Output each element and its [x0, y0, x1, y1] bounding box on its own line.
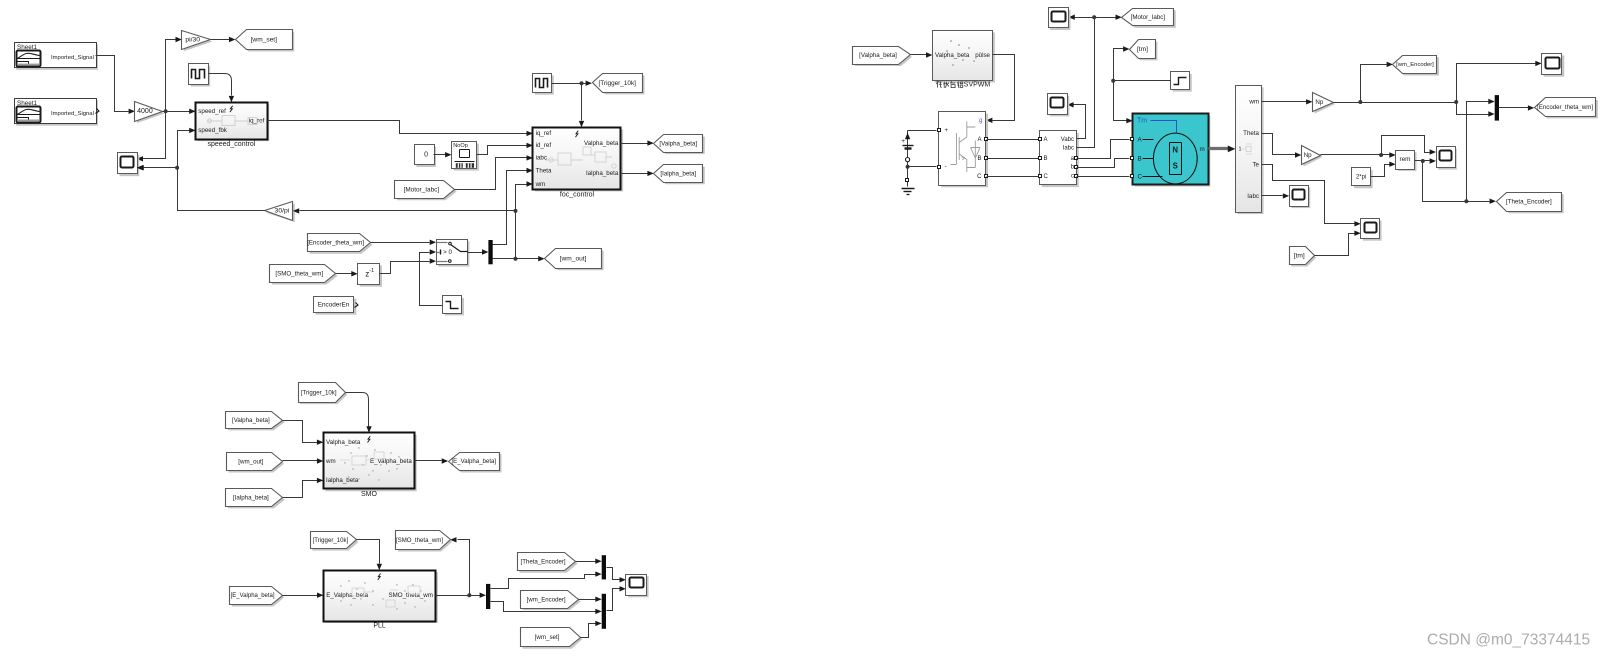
- svg-text:[wm_set]: [wm_set]: [251, 37, 278, 44]
- svg-text:Ialpha_beta: Ialpha_beta: [586, 170, 619, 177]
- From tag [Valpha_beta] (SMO): [228, 414, 285, 431]
- svg-text:CSDN @m0_73374415: CSDN @m0_73374415: [1427, 632, 1590, 649]
- scope Vabc (mirrored): [1050, 96, 1070, 117]
- svg-text:[SMO_theta_wm]: [SMO_theta_wm]: [396, 537, 443, 544]
- wire: speeed_control iq_ref to foc_control iq_ref: [268, 121, 527, 134]
- mux theta compare: [602, 555, 606, 579]
- wire: c to PMSM C: [1077, 176, 1130, 178]
- wire: inverter B to measurement B: [987, 158, 1039, 160]
- junction at DC source negative: [906, 165, 910, 169]
- svg-text:Theta: Theta: [1243, 130, 1259, 137]
- From tag [SMO_theta_wm]: [272, 267, 338, 285]
- scope compare (bottom): [628, 576, 649, 597]
- wire: bus Theta to gain Np2: [1262, 134, 1296, 155]
- svg-text:[Valpha_beta]: [Valpha_beta]: [232, 417, 270, 424]
- wire: Vabc to scope: [1074, 105, 1086, 139]
- junction wm tap to 30/pi: [514, 209, 518, 213]
- wire: wm_out to SMO wm: [283, 460, 318, 462]
- wire: junction over rem to scope input 1: [1382, 136, 1425, 155]
- pulse generator (speed profile trigger): [191, 66, 211, 87]
- From tag [Trigger_10k] (PLL): [312, 533, 358, 551]
- svg-text:4000: 4000: [137, 108, 153, 115]
- Goto tag [Valpha_beta]: [656, 137, 705, 155]
- universal bridge inverter (IGBT): [941, 114, 988, 188]
- wire: Iabc up to scope and Goto Motor_Iabc: [1075, 18, 1095, 148]
- svg-text:[Ialpha_beta]: [Ialpha_beta]: [233, 495, 269, 502]
- svg-text:[Encoder_theta_wm]: [Encoder_theta_wm]: [307, 240, 364, 247]
- svg-text:wm: wm: [535, 181, 546, 188]
- wire: gain 4000 output to speed_ref with junction: [163, 111, 190, 113]
- svg-text:[wm_Encoder]: [wm_Encoder]: [527, 596, 566, 603]
- wire: b to PMSM B: [1077, 159, 1130, 168]
- wire: feedback junction to scope lower input: [144, 167, 178, 169]
- wire: DC- to inverter -: [908, 166, 937, 168]
- wire: demux wm to mux bottom input 2: [491, 602, 596, 612]
- svg-text:Valpha_beta: Valpha_beta: [326, 439, 361, 446]
- svg-text:[tm]: [tm]: [1137, 46, 1148, 53]
- svg-text:E_Valpha_beta: E_Valpha_beta: [326, 592, 368, 599]
- DC voltage source with battery symbol: [907, 131, 909, 187]
- junction on torque wire: [1111, 79, 1115, 83]
- svg-text:NoOp: NoOp: [453, 143, 468, 149]
- junction theta to scope: [1379, 153, 1383, 157]
- wire: From tm to scope Te input 2: [1315, 234, 1355, 256]
- wire: mux wm to scope input 2: [607, 589, 620, 611]
- svg-text:[SMO_theta_wm]: [SMO_theta_wm]: [275, 271, 323, 278]
- wire: junction down to PMSM Tm: [1114, 81, 1127, 121]
- svg-text:iq_ref: iq_ref: [536, 130, 552, 137]
- junction on wm wire: [514, 257, 518, 261]
- svg-text:C: C: [1044, 174, 1049, 180]
- wire: rem output to scope and Theta_Encoder: [1415, 160, 1430, 162]
- svg-text:[Motor_Iabc]: [Motor_Iabc]: [1131, 14, 1166, 21]
- svg-text:[wm_out]: [wm_out]: [560, 255, 587, 262]
- label 优化后的SVPWM (CJK simulated): [936, 81, 942, 87]
- junction on PLL output: [467, 593, 471, 597]
- svg-text:Valpha_beta: Valpha_beta: [584, 140, 619, 147]
- wire: a to PMSM A: [1077, 140, 1130, 159]
- wire: wm_set to mux bottom input 3: [581, 624, 596, 638]
- svg-text:wm: wm: [1248, 99, 1259, 106]
- wire: mux output to Goto Encoder_theta_wm: [1499, 107, 1529, 109]
- wire: inverter A to measurement A: [987, 139, 1039, 141]
- svg-text:[wm_set]: [wm_set]: [535, 634, 560, 641]
- svg-text:[E_Valpha_beta]: [E_Valpha_beta]: [451, 458, 496, 465]
- ground port square: [906, 179, 909, 182]
- wire: SMO output to Goto E_Valpha_beta: [415, 460, 442, 462]
- svg-text:speeed_control: speeed_control: [207, 141, 255, 148]
- wire: unit delay to switch input 3: [380, 262, 430, 274]
- subsystem foc_control: [535, 129, 623, 191]
- wire: junction up to gain pi/30: [166, 40, 176, 112]
- svg-text:[Motor_Iabc]: [Motor_Iabc]: [404, 186, 440, 193]
- wire: wm_Encoder to mux bottom input 1: [579, 599, 596, 601]
- wire: bus Iabc to scope: [1262, 195, 1283, 197]
- bus wire: PMSM m to bus selector: [1209, 147, 1229, 150]
- Goto tag [Ialpha_beta]: [656, 167, 705, 185]
- wire: Trigger_10k to PLL trigger: [357, 540, 380, 564]
- svg-text:A: A: [1044, 137, 1048, 143]
- From tag [Valpha_beta] (SVPWM feed): [855, 48, 912, 66]
- Goto tag [wm_set]: [237, 32, 294, 52]
- junction to scope / mux: [1454, 100, 1458, 104]
- From tag [wm_set]: [523, 630, 583, 649]
- svg-text:Ialpha_beta: Ialpha_beta: [326, 477, 359, 484]
- svg-text:Tm: Tm: [1137, 117, 1147, 124]
- junction on trigger wire: [580, 81, 584, 85]
- svg-text:0: 0: [424, 151, 428, 158]
- From tag [Ialpha_beta] (SMO): [228, 491, 285, 508]
- wire: junction up to Goto tm: [1114, 49, 1124, 81]
- svg-text:> 0: > 0: [443, 249, 452, 256]
- junction to wm_Encoder: [1358, 100, 1362, 104]
- wire: Np output across to mux with junctions: [1334, 102, 1457, 104]
- scope theta (two inputs): [1438, 149, 1457, 170]
- svg-text:[Trigger_10k]: [Trigger_10k]: [313, 537, 349, 544]
- wire: switch output to demux: [468, 252, 483, 254]
- wire: signal editor 1 to gain 4000: [96, 56, 129, 112]
- Goto tag [Motor_Iabc]: [1124, 10, 1176, 28]
- svg-text:1: 1: [1239, 146, 1242, 152]
- wire: junction up-left to Goto SMO_theta_wm: [458, 540, 470, 596]
- wire: SVPWM pulse to inverter gate: [993, 55, 1015, 121]
- svg-text:[wm_Encoder]: [wm_Encoder]: [1396, 62, 1434, 68]
- math function rem: [1398, 152, 1417, 171]
- three-phase VI measurement block: [1042, 133, 1079, 187]
- svg-text:A: A: [977, 137, 981, 143]
- svg-text:rem: rem: [1399, 156, 1410, 163]
- svg-text:B: B: [1044, 156, 1048, 162]
- subsystem speeed_control: [198, 104, 270, 141]
- svg-text:Np: Np: [1304, 152, 1312, 159]
- block EncoderEn: [316, 299, 357, 315]
- Goto tag [Trigger_10k]: [594, 76, 645, 95]
- svg-text:+: +: [901, 138, 905, 145]
- junction on feedback wire: [175, 166, 179, 170]
- svg-text:2*pi: 2*pi: [1356, 174, 1366, 180]
- subsystem SMO: [325, 435, 416, 492]
- unconnected output port of signal editor 2: [96, 109, 100, 114]
- wire: wm tap to gain 30/pi input: [300, 210, 516, 212]
- Goto tag [wm_out]: [547, 251, 604, 271]
- svg-text:30/pi: 30/pi: [275, 208, 290, 215]
- From tag [Encoder_theta_wm]: [310, 236, 373, 254]
- From tag [Trigger_10k] (SMO): [300, 385, 347, 404]
- wire: NoOp to foc_control id_ref: [477, 146, 527, 155]
- wire: step torque to junction: [1114, 80, 1171, 82]
- svg-text:[tm]: [tm]: [1294, 252, 1305, 259]
- subsystem PLL: [326, 572, 438, 623]
- From tag [Motor_Iabc]: [397, 183, 457, 201]
- gain Np (wm): [1315, 94, 1336, 113]
- wire: From Encoder_theta_wm to switch input 1: [371, 242, 430, 244]
- Goto tag [Encoder_theta_wm]: [1536, 100, 1598, 119]
- svg-text:B: B: [977, 156, 981, 162]
- wire: step to switch control input: [420, 253, 443, 306]
- wire: demux theta to mux top input 2: [491, 575, 596, 589]
- signal editor block 2 (Sheet1 / Imported_Signal): [16, 100, 98, 125]
- wire: From Valpha_beta to SVPWM: [911, 54, 927, 56]
- svg-text:wm: wm: [325, 458, 336, 465]
- ground symbol: [902, 188, 915, 190]
- svg-text:Te: Te: [1252, 161, 1259, 168]
- scope (speed compare, mirrored inputs): [120, 155, 140, 176]
- wire: pulse generator to Goto Trigger_10k: [552, 83, 586, 85]
- svg-text:[Trigger_10k]: [Trigger_10k]: [301, 389, 337, 396]
- wire: Ialpha_beta to SMO: [283, 481, 318, 498]
- wire: junction up to scope wm: [1457, 64, 1536, 103]
- From tag [Theta_Encoder]: [519, 554, 577, 573]
- svg-text:Iabc: Iabc: [1063, 145, 1074, 151]
- svg-text:[wm_out]: [wm_out]: [238, 459, 263, 466]
- junction on gain 4000 output: [164, 109, 168, 113]
- svg-text:[Valpha_beta]: [Valpha_beta]: [659, 140, 697, 147]
- svg-text:C: C: [1138, 174, 1143, 181]
- signal editor block 1 (Sheet1 / Imported_Signal): [16, 44, 98, 69]
- svg-text:+: +: [945, 128, 949, 134]
- svg-text:Valpha_beta: Valpha_beta: [935, 52, 970, 59]
- scope Te: [1363, 221, 1382, 241]
- wire: DC+ to inverter +: [908, 130, 937, 132]
- wire: E_Valpha_beta to PLL: [283, 595, 318, 597]
- svg-text:SMO: SMO: [361, 491, 378, 498]
- subsystem 优化后的SVPWM: [935, 32, 995, 82]
- scope Iabc (mirrored): [1050, 10, 1070, 30]
- Goto tag [tm]: [1132, 42, 1158, 61]
- svg-text:pi/30: pi/30: [185, 36, 200, 43]
- wire: junction up to Goto wm_Encoder: [1361, 65, 1387, 103]
- step block (load torque, mirrored output on left): [1173, 74, 1192, 92]
- Goto tag [SMO_theta_wm] (mirrored, point right): [398, 532, 452, 551]
- wire: Valpha_beta to SMO: [283, 421, 318, 443]
- svg-text:N: N: [1172, 146, 1178, 155]
- svg-text:EncoderEn: EncoderEn: [318, 301, 350, 308]
- mux encoder_theta_wm: [1495, 95, 1499, 121]
- wire: From Motor_Iabc to foc_control iabc: [455, 158, 527, 190]
- block NoOp (rate transition): [454, 144, 479, 171]
- svg-text:Imported_Signal: Imported_Signal: [51, 55, 94, 61]
- wire: rem down to Theta_Encoder row: [1423, 161, 1490, 202]
- wire: demux wm out to From wm_out and foc_control wm: [493, 258, 539, 260]
- From tag [wm_out]: [229, 455, 285, 473]
- svg-text:m: m: [1200, 146, 1205, 153]
- wire: bus Te to scope Te: [1262, 165, 1355, 224]
- junction theta to mux: [1464, 199, 1468, 203]
- wire: foc Valpha_beta to Goto: [621, 143, 648, 145]
- wire: junction down to foc_control trigger: [581, 84, 583, 121]
- svg-text:-: -: [945, 164, 947, 171]
- svg-text:c: c: [1071, 174, 1074, 180]
- svg-text:foc_control: foc_control: [560, 191, 595, 198]
- svg-text:speed_ref: speed_ref: [198, 108, 226, 115]
- svg-text:[Encoder_theta_wm]: [Encoder_theta_wm]: [1537, 104, 1593, 111]
- wire: From SMO_theta_wm to unit delay: [336, 273, 352, 275]
- junction on Iabc wire: [1092, 15, 1096, 19]
- From tag [wm_Encoder]: [523, 593, 581, 611]
- wire: Theta_Encoder to mux top input 1: [576, 561, 596, 563]
- step block (EncoderEn step, mirrored output on left): [445, 298, 464, 316]
- svg-text:pulse: pulse: [975, 52, 990, 59]
- svg-text:[Ialpha_beta]: [Ialpha_beta]: [660, 170, 696, 177]
- junction on rem output: [1421, 159, 1425, 163]
- svg-text:g: g: [979, 118, 982, 124]
- wire: junction down to mux input 2: [1457, 103, 1489, 115]
- rotor circle with N S magnet: [1153, 133, 1197, 184]
- wire: junction up to mux input 1: [1467, 102, 1489, 202]
- From tag [tm]: [1291, 249, 1316, 267]
- wire: constant 0 to NoOp: [434, 154, 446, 156]
- svg-text:PLL: PLL: [373, 623, 386, 630]
- wire: 30/pi output to speed_fbk: [178, 131, 265, 211]
- IGBT + diode icon inside inverter: [951, 122, 981, 173]
- unconnected output port of EncoderEn: [355, 303, 359, 308]
- svg-text:iabc: iabc: [536, 155, 547, 162]
- svg-text:[Valpha_beta]: [Valpha_beta]: [859, 52, 897, 59]
- wire: foc Ialpha_beta to Goto: [621, 173, 648, 175]
- svg-text:SMO_theta_wm: SMO_theta_wm: [389, 592, 433, 599]
- demux bar PLL output: [486, 584, 490, 609]
- wire: junction down to scope ref input: [143, 112, 166, 159]
- wire: bus wm to gain Np: [1262, 101, 1307, 103]
- svg-text:Vabc: Vabc: [1061, 137, 1074, 143]
- wire: junction to Goto Motor_Iabc: [1095, 17, 1116, 19]
- svg-text:Theta: Theta: [536, 167, 552, 174]
- gain Np (Theta): [1303, 148, 1322, 167]
- PMSM motor block (cyan): [1135, 115, 1211, 186]
- wire: inverter C to measurement C: [987, 176, 1039, 178]
- pulse generator (10kHz trigger): [535, 76, 554, 95]
- svg-text:SVPWM: SVPWM: [964, 82, 991, 89]
- gain 4000: [137, 104, 165, 124]
- wire: mux theta to scope input 1: [607, 568, 620, 580]
- wire: demux theta out to foc_control Theta: [493, 171, 527, 245]
- gain pi/30: [184, 32, 212, 51]
- scope wm (top right): [1544, 55, 1565, 76]
- svg-text:[Theta_Encoder]: [Theta_Encoder]: [1506, 199, 1552, 206]
- wire: Np2 output to rem with junction: [1321, 154, 1390, 156]
- constant 2*pi: [1354, 170, 1373, 188]
- svg-text:[E_Valpha_beta]: [E_Valpha_beta]: [231, 593, 275, 599]
- Goto tag [E_Valpha_beta]: [450, 454, 501, 472]
- wire: 2*pi to rem input 2: [1371, 165, 1390, 177]
- From tag [E_Valpha_beta] (PLL): [232, 588, 284, 606]
- svg-text:speed_fbk: speed_fbk: [198, 127, 227, 134]
- svg-text:id_ref: id_ref: [536, 142, 552, 149]
- bus selector subsystem (measurements demux): [1237, 87, 1263, 214]
- svg-text:Iabc: Iabc: [1247, 193, 1259, 200]
- svg-text:[Theta_Encoder]: [Theta_Encoder]: [521, 558, 566, 565]
- gain 30/pi (left pointing): [266, 203, 295, 222]
- svg-text:C: C: [977, 174, 982, 180]
- unit delay z^-1: [360, 265, 382, 286]
- svg-text:Imported_Signal: Imported_Signal: [51, 111, 94, 117]
- wire: pi/30 to Goto wm_set: [211, 39, 230, 41]
- mux wm compare: [602, 594, 606, 629]
- wire: PLL output to demux with junction up to SMO_theta_wm goto: [436, 595, 480, 597]
- switch block (criteria > 0): [438, 241, 469, 266]
- constant 0: [416, 147, 436, 167]
- demux bar (theta/wm split): [488, 240, 492, 264]
- wire: Trigger_10k to SMO trigger: [346, 393, 369, 427]
- svg-text:[Trigger_10k]: [Trigger_10k]: [599, 80, 637, 87]
- Goto tag [wm_Encoder]: [1395, 57, 1439, 75]
- scope Iabc motor: [1291, 188, 1310, 209]
- wire: pulse generator to speed_control trigger: [209, 74, 232, 96]
- svg-text:B: B: [1138, 156, 1142, 163]
- svg-text:S: S: [1173, 162, 1178, 171]
- svg-text:Np: Np: [1315, 99, 1323, 106]
- Goto tag [Theta_Encoder]: [1498, 194, 1564, 213]
